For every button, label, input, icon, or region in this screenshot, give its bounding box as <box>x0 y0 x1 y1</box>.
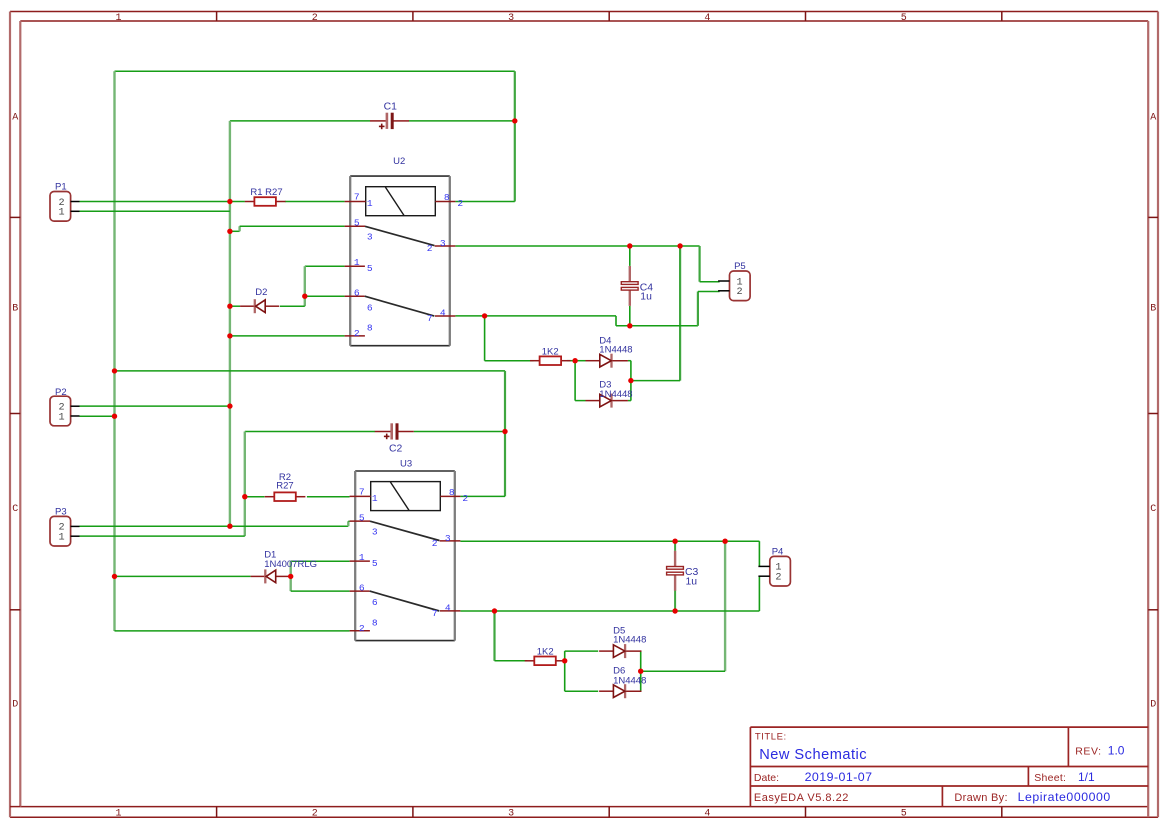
svg-text:1N4448: 1N4448 <box>599 389 632 400</box>
junction <box>227 229 232 234</box>
diode D1 <box>251 550 317 584</box>
junction <box>627 243 632 248</box>
wire <box>495 660 528 662</box>
junction <box>227 333 232 338</box>
diode D6 <box>599 666 646 699</box>
resistor R3 1K2 <box>530 347 571 366</box>
wire <box>460 540 759 542</box>
svg-text:U2: U2 <box>393 156 405 167</box>
svg-text:4: 4 <box>704 13 710 24</box>
wire <box>305 265 345 267</box>
svg-text:1: 1 <box>372 493 378 504</box>
wire <box>80 415 115 417</box>
capacitor C2 <box>375 423 414 454</box>
wire <box>514 71 516 201</box>
junction <box>112 574 117 579</box>
svg-text:2: 2 <box>462 493 468 504</box>
wire <box>615 316 617 326</box>
wire <box>460 610 759 612</box>
wire <box>698 291 720 293</box>
svg-text:1N4007RLG: 1N4007RLG <box>264 559 317 570</box>
svg-text:C: C <box>12 504 18 515</box>
wire <box>291 590 350 592</box>
svg-text:4: 4 <box>440 308 446 319</box>
wire <box>455 201 514 203</box>
junction <box>112 368 117 373</box>
wire <box>639 650 642 652</box>
svg-text:6: 6 <box>367 302 373 313</box>
wire <box>304 266 306 306</box>
svg-text:1: 1 <box>115 808 121 819</box>
svg-text:New Schematic: New Schematic <box>759 747 867 763</box>
connector P4 <box>758 547 790 587</box>
wire <box>565 650 599 652</box>
junction <box>722 539 727 544</box>
svg-text:1: 1 <box>367 198 373 209</box>
wire <box>565 690 599 692</box>
wire <box>639 690 642 692</box>
svg-text:6: 6 <box>359 583 365 594</box>
wire <box>244 432 246 537</box>
svg-text:1/1: 1/1 <box>1078 770 1095 784</box>
resistor R2 <box>265 472 306 501</box>
wire <box>575 360 585 362</box>
wire <box>493 611 495 661</box>
wire <box>80 210 230 212</box>
wire <box>616 325 698 327</box>
svg-text:C1: C1 <box>384 102 398 113</box>
wire <box>640 651 642 691</box>
wire <box>574 361 576 401</box>
svg-text:4: 4 <box>445 602 451 613</box>
svg-text:2: 2 <box>432 538 438 549</box>
svg-text:U3: U3 <box>400 458 412 469</box>
junction <box>677 243 682 248</box>
connector P5 <box>718 261 750 300</box>
svg-text:Lepirate000000: Lepirate000000 <box>1018 790 1111 804</box>
junction <box>242 494 247 499</box>
connector P1 <box>50 182 80 222</box>
wire <box>291 560 350 562</box>
wire <box>629 246 631 266</box>
svg-text:1: 1 <box>115 13 121 24</box>
junction <box>227 524 232 529</box>
svg-text:3: 3 <box>508 808 514 819</box>
svg-text:2: 2 <box>457 198 463 209</box>
svg-text:2: 2 <box>354 328 360 339</box>
svg-text:D: D <box>1150 700 1156 711</box>
relay U3 <box>350 458 469 640</box>
wire <box>245 431 375 433</box>
svg-text:7: 7 <box>427 313 433 324</box>
svg-text:2019-01-07: 2019-01-07 <box>805 770 873 784</box>
junction <box>502 429 507 434</box>
wire <box>80 405 230 407</box>
svg-text:1: 1 <box>59 208 65 219</box>
svg-text:6: 6 <box>372 597 378 608</box>
diode D3 <box>586 380 633 408</box>
svg-text:2: 2 <box>312 13 318 24</box>
diode D5 <box>599 626 646 659</box>
junction <box>562 658 567 663</box>
svg-text:R1 R27: R1 R27 <box>250 187 282 198</box>
wire <box>230 230 240 232</box>
wire <box>409 120 515 122</box>
resistor R4 1K2 <box>525 646 566 665</box>
capacitor C1 <box>370 102 409 130</box>
svg-text:Drawn By:: Drawn By: <box>954 792 1007 804</box>
wire <box>564 651 566 691</box>
svg-text:EasyEDA V5.8.22: EasyEDA V5.8.22 <box>754 792 849 804</box>
svg-text:5: 5 <box>901 13 907 24</box>
wire <box>245 496 265 498</box>
svg-text:1N4448: 1N4448 <box>599 345 632 356</box>
svg-text:1: 1 <box>59 412 65 423</box>
wire <box>455 315 616 317</box>
junction <box>112 414 117 419</box>
wire <box>628 360 631 362</box>
resistor R1 <box>245 187 286 206</box>
junction <box>672 539 677 544</box>
svg-text:A: A <box>1150 113 1156 124</box>
svg-text:7: 7 <box>354 192 360 203</box>
wire <box>289 575 291 577</box>
svg-text:8: 8 <box>372 617 378 628</box>
svg-text:2: 2 <box>359 623 365 634</box>
svg-text:1N4448: 1N4448 <box>613 676 646 687</box>
svg-text:Date:: Date: <box>754 772 779 784</box>
svg-text:3: 3 <box>372 526 378 537</box>
wire <box>724 541 726 671</box>
svg-text:1: 1 <box>354 257 360 268</box>
wire <box>485 360 534 362</box>
svg-text:P5: P5 <box>734 261 746 272</box>
svg-text:1.0: 1.0 <box>1108 744 1125 758</box>
junction <box>482 313 487 318</box>
wire <box>348 520 349 522</box>
junction <box>672 608 677 613</box>
svg-text:5: 5 <box>901 808 907 819</box>
svg-text:7: 7 <box>432 608 438 619</box>
wire <box>504 371 506 497</box>
wire <box>630 361 632 401</box>
wire <box>674 590 676 611</box>
wire <box>414 431 505 433</box>
wire <box>115 575 251 577</box>
junction <box>227 304 232 309</box>
wire <box>240 225 345 227</box>
svg-text:1u: 1u <box>640 292 652 303</box>
wire <box>758 576 760 611</box>
wire <box>285 201 345 203</box>
svg-text:A: A <box>12 113 18 124</box>
svg-text:6: 6 <box>354 288 360 299</box>
svg-text:2: 2 <box>775 573 781 584</box>
svg-text:1K2: 1K2 <box>542 347 559 358</box>
svg-text:8: 8 <box>367 322 373 333</box>
svg-text:5: 5 <box>354 218 360 229</box>
svg-text:1: 1 <box>59 533 65 544</box>
svg-text:1u: 1u <box>686 576 698 587</box>
svg-text:B: B <box>1150 304 1156 315</box>
connector P3 <box>50 507 80 547</box>
junction <box>302 294 307 299</box>
wire <box>455 245 699 247</box>
wire <box>347 521 349 526</box>
wire <box>697 292 699 326</box>
svg-text:3: 3 <box>367 232 373 243</box>
diode D4 <box>586 335 633 367</box>
junction <box>572 358 577 363</box>
wire <box>631 380 680 382</box>
junction <box>227 403 232 408</box>
svg-text:R27: R27 <box>276 480 293 491</box>
svg-text:B: B <box>12 304 18 315</box>
wire <box>280 305 305 307</box>
wire <box>460 495 505 497</box>
wire <box>229 121 231 526</box>
connector P2 <box>50 387 80 426</box>
svg-text:5: 5 <box>367 263 373 274</box>
wire <box>238 226 240 231</box>
wire <box>80 535 245 537</box>
wire <box>80 525 349 527</box>
wire <box>628 400 631 402</box>
wire <box>290 561 292 591</box>
svg-text:1N4448: 1N4448 <box>613 635 646 646</box>
svg-text:C2: C2 <box>389 444 403 455</box>
junction <box>627 323 632 328</box>
svg-text:3: 3 <box>508 13 514 24</box>
junction <box>512 118 517 123</box>
svg-text:REV:: REV: <box>1075 746 1102 758</box>
svg-text:7: 7 <box>359 487 365 498</box>
svg-text:8: 8 <box>444 192 450 203</box>
svg-text:TITLE:: TITLE: <box>755 731 787 742</box>
wire <box>115 370 506 372</box>
svg-text:5: 5 <box>359 512 365 523</box>
wire <box>674 541 676 551</box>
wire <box>679 246 681 381</box>
svg-text:4: 4 <box>704 808 710 819</box>
wire <box>629 306 631 326</box>
svg-text:2: 2 <box>427 243 433 254</box>
wire <box>758 541 760 566</box>
wire <box>575 400 585 402</box>
junction <box>288 574 293 579</box>
wire <box>305 295 345 297</box>
wire <box>307 496 350 498</box>
wire <box>641 670 725 672</box>
junction <box>492 608 497 613</box>
wire <box>115 630 350 632</box>
junction <box>227 199 232 204</box>
junction <box>628 378 633 383</box>
svg-text:D2: D2 <box>255 287 267 298</box>
junction <box>638 669 643 674</box>
svg-text:1: 1 <box>359 552 365 563</box>
wire <box>80 201 245 203</box>
wire <box>484 316 486 361</box>
svg-text:Sheet:: Sheet: <box>1034 772 1066 784</box>
title block <box>750 727 1148 807</box>
wire <box>230 120 370 122</box>
svg-text:5: 5 <box>372 558 378 569</box>
wire <box>230 335 345 337</box>
diode D2 <box>240 287 279 313</box>
svg-text:D: D <box>12 700 18 711</box>
svg-text:2: 2 <box>312 808 318 819</box>
svg-text:3: 3 <box>440 238 446 249</box>
svg-text:P3: P3 <box>55 507 67 518</box>
wire <box>115 70 515 72</box>
wire <box>113 71 115 631</box>
svg-text:8: 8 <box>449 487 455 498</box>
svg-text:C: C <box>1150 504 1156 515</box>
svg-text:2: 2 <box>737 287 743 298</box>
wire <box>700 281 720 283</box>
capacitor C3 <box>667 551 699 591</box>
svg-text:P2: P2 <box>55 387 67 398</box>
wire <box>230 305 240 307</box>
relay U2 <box>345 156 464 346</box>
svg-text:P1: P1 <box>55 182 67 193</box>
capacitor C4 <box>621 266 653 306</box>
wire <box>567 360 575 362</box>
wire <box>698 246 700 282</box>
svg-text:3: 3 <box>445 533 451 544</box>
svg-text:1K2: 1K2 <box>537 646 554 657</box>
svg-text:P4: P4 <box>772 547 784 558</box>
